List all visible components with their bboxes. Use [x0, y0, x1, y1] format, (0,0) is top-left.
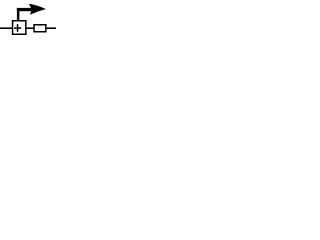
plus sign horizontal bar [14, 27, 21, 29]
resistor box R1 [34, 25, 46, 32]
wire middle segment [27, 27, 34, 29]
arrow head [29, 4, 46, 15]
wire left segment [0, 27, 12, 29]
voltage source box B1 [13, 21, 26, 35]
wire vertical drop from arrow to box [17, 8, 20, 21]
wire right segment [47, 27, 56, 29]
plus sign vertical bar [17, 24, 19, 32]
arrow shaft [17, 8, 33, 11]
